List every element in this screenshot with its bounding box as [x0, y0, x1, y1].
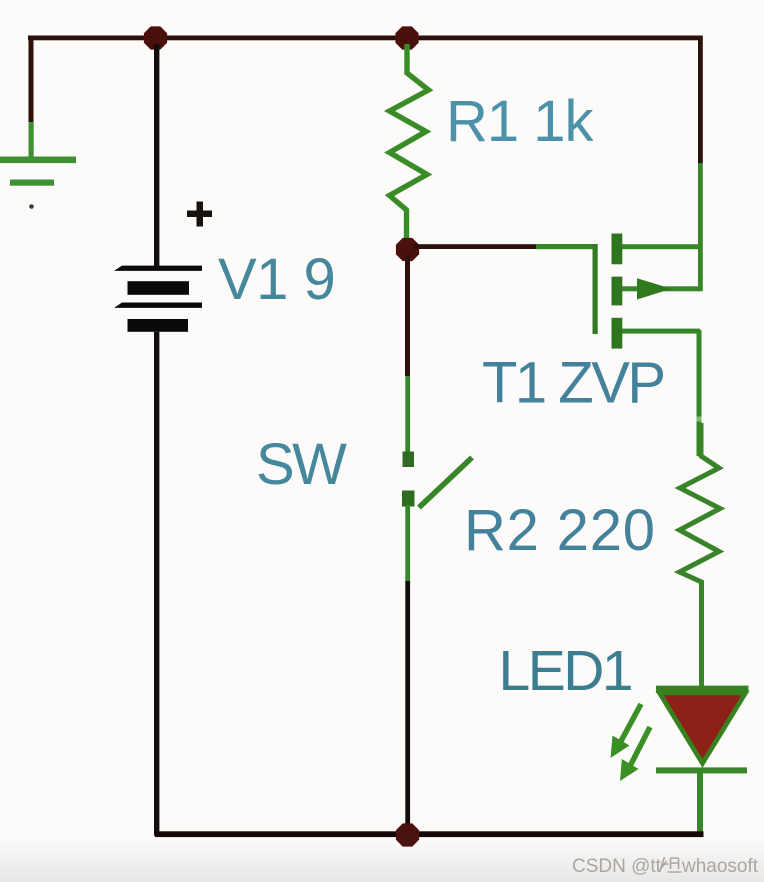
resistor R1 — [390, 44, 429, 246]
switch SW bottom contact — [402, 491, 415, 507]
wire battery top lead — [154, 44, 159, 266]
node D junction dot (bottom rail / switch branch) — [396, 823, 419, 846]
wire right vertical (dark part, from top rail) — [698, 36, 703, 164]
wire bottom horizontal rail — [155, 831, 704, 837]
svg-text:SW: SW — [256, 432, 347, 497]
wire joint notch on R2 column — [697, 417, 702, 422]
transistor T1 channel bars — [612, 234, 623, 349]
resistor R2 — [680, 423, 721, 688]
wire switch to bottom (black part) — [405, 581, 410, 834]
wire node C down to switch (dark part) — [405, 255, 410, 376]
svg-text:whaosoft: whaosoft — [681, 856, 759, 877]
wire LED bottom lead — [697, 771, 703, 834]
transistor T1 source wire — [622, 329, 700, 334]
LED1 light arrow 2 — [620, 727, 650, 781]
transistor T1 body wire with arrow — [622, 286, 702, 291]
wire right vertical (green, down to body junction) — [698, 163, 703, 291]
transistor T1 drain wire — [622, 244, 702, 249]
svg-text:R2 220: R2 220 — [464, 498, 656, 563]
wire node C to gate (green part) — [536, 244, 597, 249]
battery V1 plates — [114, 266, 202, 332]
node speck near ground — [29, 204, 34, 209]
svg-text:CSDN @tt: CSDN @tt — [572, 856, 662, 877]
LED1 cathode bar — [656, 767, 747, 773]
wire battery bottom lead — [154, 332, 159, 836]
node C junction dot (R1 bottom / gate / switch) — [396, 238, 419, 261]
svg-text:V1 9: V1 9 — [218, 247, 335, 312]
wire down to switch (green part) — [405, 376, 410, 454]
wire top horizontal rail — [28, 36, 702, 41]
svg-text:LED1: LED1 — [499, 639, 632, 703]
ground — [0, 157, 76, 186]
svg-text:T1 ZVP: T1 ZVP — [482, 351, 664, 416]
node B junction dot (R1 top / top rail) — [395, 26, 418, 49]
wire ground branch vertical (dark part) — [29, 36, 34, 123]
switch SW lever — [419, 458, 472, 508]
LED1 anode bar — [656, 686, 749, 693]
transistor T1 arrow — [637, 278, 672, 299]
battery V1 plus sign — [187, 202, 212, 227]
node A junction dot (battery branch / top rail) — [144, 26, 167, 49]
wire ground branch vertical (green part) — [29, 122, 34, 160]
LED1 light arrow 1 — [611, 704, 642, 758]
wire source lead down to R2 — [697, 330, 702, 456]
switch SW top contact — [403, 452, 415, 468]
LED1 triangle — [660, 693, 746, 764]
wire node C to gate (dark part) — [413, 244, 536, 249]
wire switch to bottom (green part) — [405, 505, 410, 581]
transistor T1 gate bar — [593, 244, 598, 334]
svg-text:R1 1k: R1 1k — [446, 89, 595, 154]
